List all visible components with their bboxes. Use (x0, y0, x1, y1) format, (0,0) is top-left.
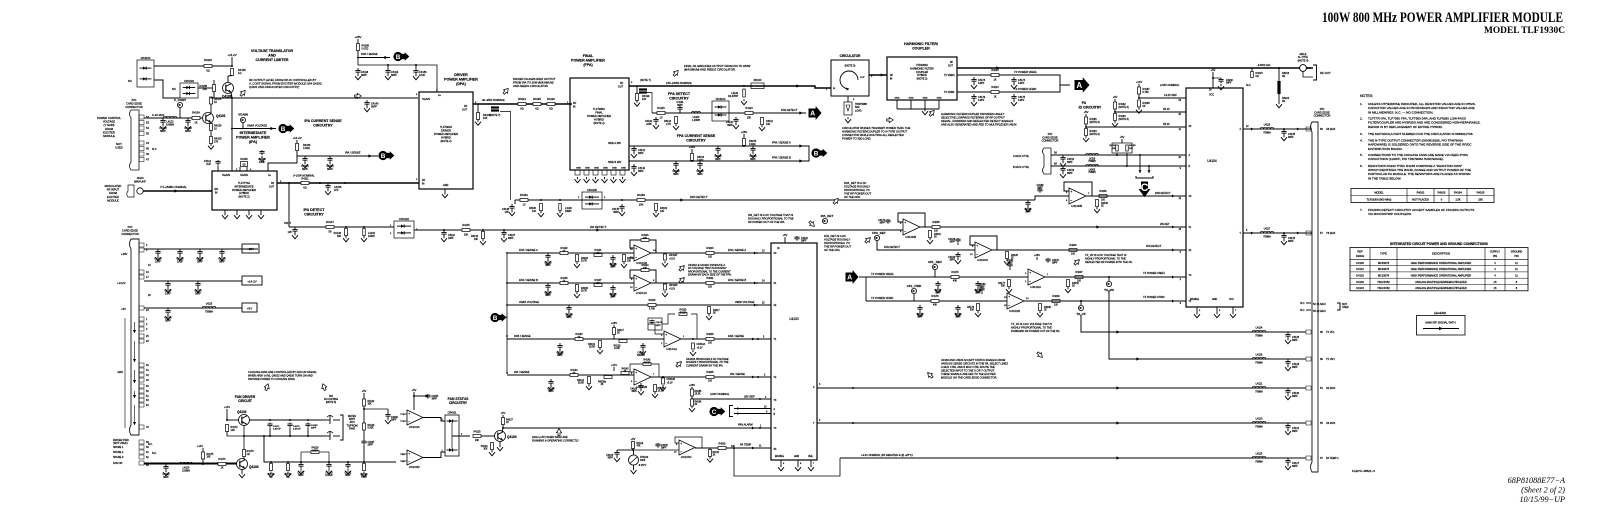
svg-text:39PF: 39PF (950, 242, 956, 244)
svg-text:RT4100: RT4100 (640, 457, 649, 459)
svg-text:10.7K: 10.7K (581, 291, 587, 293)
svg-text:39PF: 39PF (673, 173, 679, 176)
svg-text:270: 270 (214, 140, 219, 143)
svg-text:0.07Ω: 0.07Ω (362, 47, 369, 50)
svg-text:POWER AMPLIFIER: POWER AMPLIFIER (587, 114, 611, 118)
svg-text:A: A (847, 275, 852, 282)
svg-text:OMNI VOLTAGE: OMNI VOLTAGE (519, 300, 539, 304)
capacitor C4176b (973, 94, 975, 97)
svg-text:39PF: 39PF (632, 391, 638, 393)
svg-text:OF THE DPA.: OF THE DPA. (844, 195, 861, 199)
capacitor C4163 (981, 287, 983, 288)
diode pack CR4102 (394, 221, 414, 238)
resistor R4160 (623, 255, 626, 262)
svg-text:0Ω: 0Ω (206, 69, 209, 73)
svg-text:+: + (1029, 271, 1031, 275)
capacitor C4168 (957, 238, 959, 239)
svg-text:10PF: 10PF (646, 123, 652, 126)
svg-text:C4160: C4160 (1226, 80, 1233, 82)
badge B fpa sense (811, 148, 820, 157)
svg-text:1K: 1K (934, 237, 937, 239)
DPA hybrid block (419, 92, 473, 189)
capacitor C4164 (957, 305, 959, 308)
svg-text:C4166: C4166 (391, 417, 398, 419)
svg-text:10K: 10K (1129, 148, 1133, 150)
resistor R4128 (992, 249, 1010, 251)
svg-text:39PF: 39PF (608, 458, 614, 460)
svg-text:PA ID: PA ID (1163, 122, 1170, 126)
svg-text:1K: 1K (1072, 286, 1075, 288)
svg-text:X2 MUX: X2 MUX (1326, 387, 1336, 390)
svg-text:750MH: 750MH (1263, 133, 1271, 135)
component R4170 (287, 461, 289, 463)
svg-text:39PF: 39PF (545, 265, 551, 267)
svg-text:J4100: J4100 (136, 176, 144, 180)
capacitor C4183 (640, 383, 642, 386)
svg-text:39PF: 39PF (1067, 161, 1073, 164)
feedback R4110 (630, 270, 656, 283)
inductor L4121 (1252, 386, 1266, 388)
svg-text:SIGNAL. FORWARD AND REFLECTED: SIGNAL. FORWARD AND REFLECTED DETECT SIG… (941, 119, 1013, 123)
svg-text:(NOTE 4): (NOTE 4) (1298, 59, 1309, 62)
sense section left rail (506, 253, 508, 373)
svg-text:R4209: R4209 (1052, 295, 1060, 298)
svg-text:100MH: 100MH (182, 469, 190, 472)
svg-text:C4186: C4186 (948, 257, 955, 259)
svg-text:VIA MICROSTRIP COUPLERS.: VIA MICROSTRIP COUPLERS. (1368, 212, 1412, 216)
svg-text:39PF: 39PF (345, 475, 351, 477)
resistor R4146 (345, 226, 347, 228)
CPL_REV flag (932, 264, 937, 269)
svg-text:3.9PF: 3.9PF (1018, 82, 1025, 85)
svg-text:+5.1V: +5.1V (669, 259, 676, 261)
svg-text:R4109: R4109 (581, 288, 588, 290)
svg-text:VOLTAGE: VOLTAGE (103, 120, 116, 124)
svg-text:FPA I SENSE B: FPA I SENSE B (728, 278, 746, 282)
badge B dpa sense (393, 52, 402, 61)
svg-text:L4119: L4119 (1089, 159, 1096, 161)
svg-text:MINI-UHF: MINI-UHF (134, 180, 146, 184)
svg-text:1K: 1K (221, 467, 224, 470)
row omni voltage (507, 304, 771, 306)
opamp U4101D (634, 245, 651, 261)
capacitor C4100 (735, 117, 737, 120)
svg-text:HYBRID: HYBRID (441, 136, 451, 140)
svg-text:N.C.: N.C. (148, 443, 153, 446)
svg-text:CIRCUITRY: CIRCUITRY (449, 401, 468, 405)
svg-text:39PF: 39PF (508, 237, 514, 240)
wire dpa detect to opamp (1035, 196, 1069, 200)
svg-text:+28V: +28V (689, 145, 696, 149)
wire 14.2V ref (1139, 97, 1186, 99)
svg-text:R4174: R4174 (218, 458, 226, 461)
svg-text:R4189: R4189 (1044, 307, 1051, 309)
svg-text:39PF: 39PF (715, 158, 721, 161)
svg-text:1UF: 1UF (206, 163, 211, 166)
capacitor C4113 (261, 150, 263, 152)
capacitor C4179 (1047, 258, 1049, 259)
resistor R4202 (695, 447, 771, 449)
svg-text:30K: 30K (1001, 286, 1006, 288)
wire dpa sense (358, 51, 390, 58)
svg-text:1PF: 1PF (334, 189, 339, 192)
feedback wire U4100B (898, 213, 925, 227)
CPL_FWD flag (911, 288, 916, 293)
svg-text:C4183: C4183 (630, 389, 637, 391)
svg-text:52 X1 MUX: 52 X1 MUX (1313, 303, 1326, 306)
svg-text:R4113: R4113 (745, 107, 753, 110)
inductor L4128 (1252, 357, 1266, 359)
wire fan sense bottom (264, 436, 396, 462)
svg-text:7.5–15dBm NOMINAL: 7.5–15dBm NOMINAL (160, 185, 187, 189)
svg-text:GROUND: GROUND (1511, 250, 1523, 254)
IPA_DET flag (822, 218, 827, 223)
svg-text:HYBRID: HYBRID (594, 118, 604, 122)
svg-text:0.02Ω: 0.02Ω (303, 147, 310, 150)
svg-text:CR4105: CR4105 (587, 188, 597, 192)
svg-text:FPA I SENSE A: FPA I SENSE A (772, 141, 791, 145)
svg-text:A MUX CTRL AND B MUX CTRL ROUT: A MUX CTRL AND B MUX CTRL ROUTE THE (940, 365, 995, 369)
svg-text:USED: USED (1342, 306, 1349, 309)
resistor R4114 (675, 117, 678, 124)
svg-text:GND: GND (612, 168, 617, 170)
C4123 cap box (648, 318, 662, 330)
svg-text:+28V: +28V (247, 247, 254, 251)
svg-text:NC: NC (128, 79, 132, 83)
fan alarm wire (503, 427, 771, 429)
capacitor C4107 (199, 249, 201, 252)
svg-text:MAIN RF SIGNAL PATH: MAIN RF SIGNAL PATH (1425, 321, 1455, 325)
svg-text:+28V: +28V (611, 321, 617, 325)
svg-text:MODULE: MODULE (103, 134, 115, 138)
gnd arrows in connector (134, 322, 136, 333)
resistor R4103 (576, 255, 579, 262)
capacitor C4107b (752, 146, 754, 149)
resistor R4121 (709, 450, 712, 457)
component R4176 (270, 461, 272, 463)
svg-text:TX POWER VREFL: TX POWER VREFL (871, 272, 894, 276)
svg-text:CONNECTOR WHILE ROUTING ALL RE: CONNECTOR WHILE ROUTING ALL REFLECTED (842, 133, 904, 137)
svg-text:2K: 2K (713, 313, 716, 315)
svg-text:39PF: 39PF (1037, 188, 1043, 190)
+28V box (242, 244, 259, 253)
svg-text:(NOTE 2): (NOTE 2) (440, 139, 451, 143)
svg-text:Q4101: Q4101 (216, 114, 226, 118)
svg-text:+: + (408, 452, 410, 456)
inductor L4124 (1252, 330, 1266, 332)
svg-text:CIRCUITRY: CIRCUITRY (686, 138, 706, 142)
svg-text:1K: 1K (993, 96, 996, 99)
wire Q4100 emitter rail (231, 92, 232, 171)
svg-text:DRIVER: DRIVER (441, 129, 451, 133)
capacitor C4180b (547, 283, 549, 286)
svg-text:(DPA): (DPA) (456, 82, 467, 86)
capacitor C4117 (167, 281, 169, 284)
resistor R4215 (1251, 68, 1253, 72)
select pins A B (734, 408, 771, 410)
wire a mux ctrl (1051, 154, 1186, 156)
capacitor C4124 (167, 308, 169, 311)
svg-text:C4189: C4189 (1037, 185, 1044, 187)
svg-text:−: − (1029, 280, 1031, 284)
svg-text:+28V: +28V (741, 130, 748, 134)
svg-text:2K: 2K (695, 404, 698, 406)
svg-text:B: B (396, 54, 401, 61)
capacitor C4173 (289, 423, 291, 425)
resistor R4154 (192, 117, 200, 120)
svg-text:39PF: 39PF (1226, 83, 1232, 85)
svg-text:HARMONIC FILTER/: HARMONIC FILTER/ (904, 42, 938, 46)
svg-text:39PF: 39PF (880, 223, 886, 225)
svg-text:SPARE 3: SPARE 3 (113, 456, 124, 459)
capacitor C4178 (547, 253, 549, 256)
svg-text:5.76K: 5.76K (649, 308, 656, 311)
svg-text:R4204: R4204 (1069, 244, 1077, 247)
svg-text:CURRENT DRAWN BY THE IPA.: CURRENT DRAWN BY THE IPA. (686, 364, 724, 367)
svg-text:FPA CURRENT SENSE: FPA CURRENT SENSE (677, 134, 716, 138)
svg-text:R4190: R4190 (1110, 145, 1117, 147)
svg-text:5.: 5. (1360, 153, 1363, 157)
badge B ipa sense (378, 151, 387, 160)
U4104 multiplexer (1186, 88, 1243, 307)
wire CR4104 pin2 (154, 80, 180, 98)
svg-text:+14.2V: +14.2V (292, 136, 301, 140)
resistor R4209 (1052, 300, 1060, 303)
svg-text:0Ω: 0Ω (1282, 75, 1285, 78)
svg-text:HYBRID: HYBRID (239, 191, 249, 195)
diode pack CR4105 (582, 192, 602, 209)
wire to Q4104 (481, 435, 495, 437)
svg-text:U4100A: U4100A (409, 425, 420, 429)
svg-text:FROM: FROM (105, 127, 114, 131)
svg-text:FPA I SENSE A: FPA I SENSE A (519, 248, 538, 252)
svg-text:R4138: R4138 (658, 388, 665, 390)
svg-text:FPA I SENSE B: FPA I SENSE B (519, 278, 538, 282)
wire circulator out (869, 74, 887, 76)
svg-text:39PF: 39PF (163, 476, 169, 479)
svg-text:(NOT USED): (NOT USED) (113, 442, 128, 445)
svg-text:68P81088E77−A: 68P81088E77−A (1508, 476, 1566, 485)
svg-text:−: − (1070, 199, 1072, 203)
svg-text:39PF: 39PF (545, 295, 551, 297)
svg-text:ENABLE: ENABLE (1190, 298, 1200, 301)
wire Q4102 base (227, 419, 239, 421)
resistor R4141 (588, 377, 591, 384)
wire row1 out (651, 252, 771, 254)
capacitor C4175 (1013, 94, 1015, 97)
svg-text:+5V: +5V (412, 388, 417, 392)
svg-text:33.2K: 33.2K (680, 311, 687, 314)
svg-text:25°C: 25°C (641, 464, 647, 467)
svg-text:LEGEND: LEGEND (1434, 311, 1447, 315)
svg-text:−: − (408, 460, 410, 464)
svg-text:IN: IN (215, 192, 218, 195)
wire U4100A to CR4101 (423, 418, 445, 422)
svg-text:FAN ALARM: FAN ALARM (738, 423, 753, 427)
svg-text:DRAWN BY EACH SIDE OF THE FPA.: DRAWN BY EACH SIDE OF THE FPA. (688, 274, 732, 277)
resistor R4177 (1008, 280, 1011, 287)
resistor R4220 (204, 65, 212, 68)
+14.2V box (242, 276, 262, 285)
svg-text:FPA DETECT: FPA DETECT (668, 92, 691, 96)
svg-text:U4100: U4100 (1356, 261, 1364, 265)
resistor R4109 (576, 285, 579, 292)
wire fpa detect row2 (877, 241, 975, 251)
svg-text:V_CONT: V_CONT (174, 98, 186, 102)
svg-text:750MH: 750MH (205, 311, 213, 314)
svg-text:100: 100 (708, 256, 713, 259)
svg-text:TX POWER VREFL: TX POWER VREFL (1014, 70, 1037, 74)
svg-text:3.3OUF: 3.3OUF (293, 429, 301, 431)
svg-text:TYPE: TYPE (1380, 252, 1387, 256)
svg-text:10K: 10K (368, 404, 373, 406)
svg-text:VCC: VCC (1229, 299, 1234, 301)
svg-text:−: − (904, 230, 906, 234)
svg-text:GND: GND (443, 184, 449, 187)
svg-text:OF THE FPA.: OF THE FPA. (824, 248, 841, 252)
capacitor C4148 (511, 204, 513, 207)
svg-text:6.32K: 6.32K (368, 428, 374, 430)
svg-text:39PF: 39PF (391, 74, 397, 77)
wire CR4101 out (452, 435, 470, 437)
resistor R4130 (575, 338, 583, 341)
svg-text:39PF: 39PF (371, 105, 377, 108)
svg-text:CR4101: CR4101 (448, 412, 457, 415)
svg-text:COUPLER: COUPLER (912, 46, 930, 50)
svg-text:(NOTE 3): (NOTE 3) (845, 65, 856, 68)
svg-text:A MUX CTRL: A MUX CTRL (1013, 154, 1030, 158)
svg-text:+5.1V: +5.1V (667, 383, 674, 385)
wire tx vfwd (957, 91, 1045, 93)
wire tx power vfwd (866, 300, 1007, 302)
svg-text:CIRCULATOR PASSES TRANSMIT POW: CIRCULATOR PASSES TRANSMIT POWER THRU TH… (842, 126, 910, 130)
svg-text:AND FEEDS CIRCULATOR.: AND FEEDS CIRCULATOR. (512, 84, 549, 88)
svg-text:U4101C: U4101C (636, 291, 648, 295)
svg-text:+5.1V: +5.1V (669, 289, 676, 291)
svg-text:RUNNING & OPERATING CORRECTLY: RUNNING & OPERATING CORRECTLY (532, 438, 579, 442)
U4103 multiplexer (771, 243, 817, 460)
svg-text:R4154: R4154 (192, 111, 200, 115)
svg-text:0Ω: 0Ω (535, 107, 538, 111)
svg-text:A: A (1076, 81, 1082, 90)
svg-text:POWER AMPLIFIER: POWER AMPLIFIER (571, 58, 605, 62)
diode pack CR4103 (180, 83, 198, 98)
svg-text:10K: 10K (483, 449, 488, 451)
svg-text:Q4102: Q4102 (237, 410, 247, 414)
svg-text:GND: GND (895, 98, 900, 100)
svg-text:3.9PF: 3.9PF (978, 99, 985, 102)
svg-text:−: − (976, 253, 978, 257)
svg-text:R4131: R4131 (588, 344, 595, 346)
svg-text:GND: GND (909, 98, 914, 100)
badge A txv (1075, 77, 1090, 93)
svg-text:30–35W NOMINAL: 30–35W NOMINAL (482, 98, 506, 102)
svg-text:P/O: P/O (132, 98, 137, 102)
svg-text:18PF: 18PF (448, 237, 454, 240)
svg-text:+14V: +14V (224, 405, 230, 409)
svg-text:IN MILLIHENRIES. N.C. — NO CON: IN MILLIHENRIES. N.C. — NO CONNECTION. (1368, 110, 1433, 114)
svg-text:+5V: +5V (783, 233, 788, 237)
rf out bracket (1313, 65, 1317, 80)
svg-text:10K: 10K (464, 234, 469, 237)
svg-text:CR4106: CR4106 (669, 285, 678, 287)
svg-text:AND: AND (268, 53, 276, 57)
svg-text:CONNECTOR: CONNECTOR (121, 232, 138, 236)
svg-text:+14V: +14V (1136, 80, 1143, 84)
svg-text:0.33UF: 0.33UF (325, 475, 333, 477)
svg-text:ANALOG MULTIPLEXER/DEMULTIPLEX: ANALOG MULTIPLEXER/DEMULTIPLEXER (1415, 280, 1467, 284)
svg-text:REFLECTED RF POWER INTO THE PA: REFLECTED RF POWER INTO THE PA. (1085, 260, 1133, 264)
wire rf out flat (1240, 67, 1311, 69)
wire Q4100 collector (227, 76, 229, 83)
resistor R4112 (761, 118, 764, 125)
microstrip coupler DPA (491, 106, 499, 108)
svg-text:R4125: R4125 (473, 431, 481, 434)
wire x2 mux (817, 387, 1306, 389)
zener CR4106 (664, 284, 667, 290)
resistor R4204 (1069, 249, 1077, 252)
svg-text:EXCITER: EXCITER (107, 195, 119, 199)
svg-text:TX POWER VREFL: TX POWER VREFL (1143, 272, 1166, 275)
svg-text:POWER AMPLIFIER: POWER AMPLIFIER (232, 188, 256, 192)
svg-text:N.C.: N.C. (1300, 302, 1305, 305)
wire tx power vrefl (866, 276, 1028, 278)
svg-text:+: + (635, 277, 637, 281)
svg-text:R4176: R4176 (951, 271, 959, 274)
capacitor C4167 (363, 440, 365, 441)
row fpa i sense a components (507, 252, 634, 254)
wire ipa detect tap (288, 183, 290, 227)
svg-text:TX VFWD: TX VFWD (944, 92, 955, 94)
svg-text:R4126: R4126 (481, 446, 488, 448)
svg-text:0Ω: 0Ω (1282, 100, 1285, 103)
svg-text:1K: 1K (993, 79, 996, 82)
svg-text:+: + (680, 442, 682, 446)
Q4103 emitter gnd (241, 470, 243, 473)
svg-text:IPA I SENSE: IPA I SENSE (730, 372, 745, 376)
svg-text:CIRCULATOR: CIRCULATOR (840, 54, 861, 58)
svg-text:100K: 100K (312, 449, 318, 452)
svg-text:1PF: 1PF (505, 211, 510, 214)
+5V box (242, 303, 257, 312)
badge B omni voltage (278, 124, 287, 133)
wire FPA out (629, 86, 831, 88)
resistor R4174 (218, 463, 226, 466)
opamp U4101B (634, 369, 651, 385)
svg-text:PA ID: PA ID (1163, 107, 1170, 111)
capacitor C4144 (612, 285, 614, 288)
svg-text:L4128: L4128 (1256, 354, 1263, 357)
svg-text:D2.67NH: D2.67NH (728, 95, 738, 98)
svg-text:(NOTE 2): (NOTE 2) (917, 78, 928, 81)
capacitor C4187 (503, 229, 505, 231)
svg-text:15K: 15K (747, 117, 752, 120)
capacitor C4153 (1062, 166, 1064, 169)
gnd pins list (139, 317, 144, 321)
microstrip coupler FPA (639, 88, 647, 90)
svg-text:33.2K: 33.2K (644, 361, 651, 364)
svg-text:LOAD: LOAD (855, 109, 862, 112)
thermistor RT4100 (629, 455, 639, 465)
svg-text:C4123: C4123 (656, 322, 663, 324)
svg-text:39PF: 39PF (638, 152, 644, 155)
zener CR4108 (692, 343, 695, 349)
svg-text:39PF: 39PF (656, 325, 662, 327)
svg-text:2K: 2K (573, 372, 576, 375)
capacitor C4170 (887, 219, 889, 220)
svg-text:.130W min: .130W min (1257, 63, 1271, 67)
capacitor C4179 (221, 249, 223, 252)
